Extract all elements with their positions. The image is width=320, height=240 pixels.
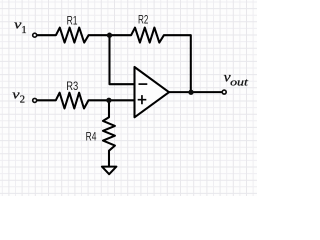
svg-text:2: 2 [20, 95, 25, 106]
svg-text:R3: R3 [66, 79, 78, 93]
svg-text:R2: R2 [138, 13, 148, 27]
svg-text:1: 1 [21, 25, 26, 36]
svg-text:R1: R1 [67, 13, 78, 27]
svg-text:v: v [12, 87, 20, 102]
svg-text:out: out [230, 77, 249, 88]
svg-text:R4: R4 [86, 129, 97, 143]
